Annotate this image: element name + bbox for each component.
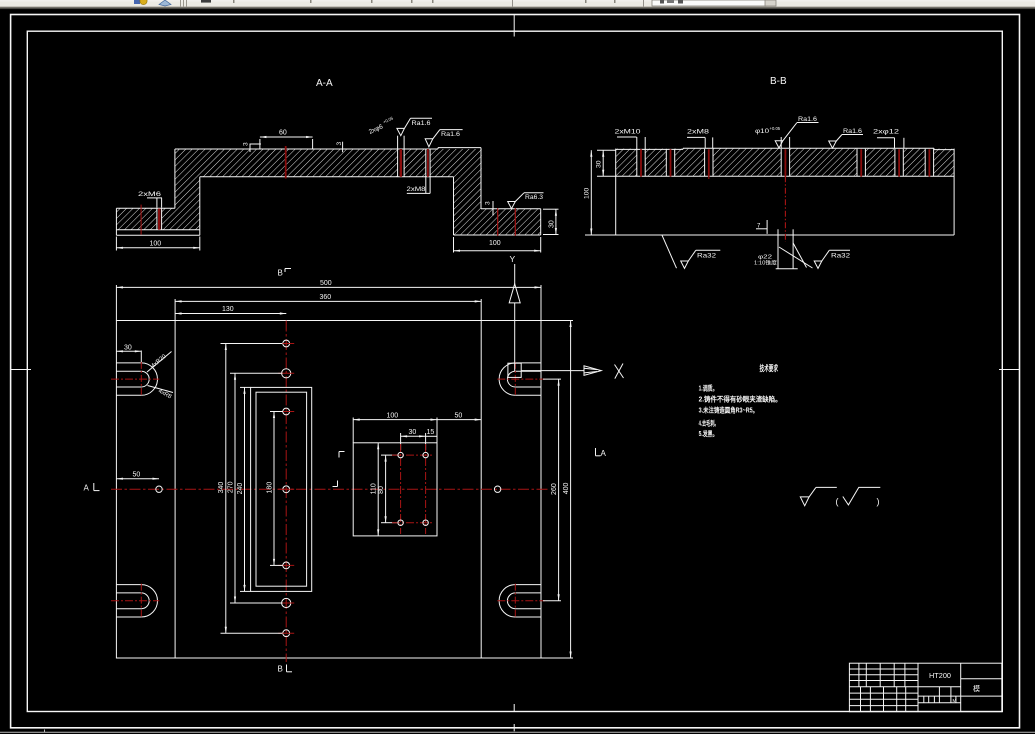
svg-text:2xφ12: 2xφ12 (873, 129, 900, 136)
svg-text:1:10锥度: 1:10锥度 (754, 259, 777, 266)
svg-text:30: 30 (124, 345, 132, 352)
svg-text:5.发黑。: 5.发黑。 (699, 429, 718, 438)
svg-text:60: 60 (279, 130, 287, 137)
svg-text:360: 360 (320, 294, 332, 301)
svg-text:100: 100 (150, 241, 162, 248)
svg-text:Ra1.6: Ra1.6 (843, 128, 863, 135)
svg-text:100: 100 (584, 187, 591, 199)
svg-text:A-A: A-A (316, 78, 333, 89)
svg-text:2xM8: 2xM8 (407, 186, 426, 193)
svg-text:100: 100 (489, 240, 501, 247)
svg-text:Ra32: Ra32 (831, 253, 851, 260)
svg-text:130: 130 (222, 306, 234, 313)
svg-text:240: 240 (237, 483, 244, 495)
svg-text:(: ( (836, 497, 839, 507)
svg-text:270: 270 (227, 481, 234, 493)
svg-text:50: 50 (133, 472, 141, 479)
svg-text:30: 30 (549, 220, 556, 228)
svg-text:3: 3 (336, 142, 343, 146)
svg-text:30: 30 (409, 429, 417, 436)
svg-text:Ra1.6: Ra1.6 (412, 120, 432, 127)
svg-text:3.未注铸造圆角R3~R5。: 3.未注铸造圆角R3~R5。 (699, 406, 759, 415)
svg-text:80: 80 (378, 486, 385, 494)
svg-text:260: 260 (551, 483, 558, 495)
svg-text:4.去毛刺。: 4.去毛刺。 (699, 418, 719, 427)
svg-text:3: 3 (243, 142, 250, 146)
svg-text:): ) (877, 497, 880, 507)
svg-text:A: A (84, 484, 90, 493)
svg-text:Ra32: Ra32 (697, 253, 717, 260)
svg-text:A: A (601, 449, 607, 458)
svg-text:Ra1.6: Ra1.6 (798, 116, 818, 123)
svg-text:M: M (953, 698, 957, 703)
svg-text:模: 模 (973, 684, 980, 693)
svg-text:50: 50 (455, 412, 463, 419)
svg-text:HT200: HT200 (929, 673, 951, 680)
svg-text:Y: Y (510, 254, 516, 264)
svg-text:2xM10: 2xM10 (615, 129, 642, 136)
svg-text:Ra1.6: Ra1.6 (441, 131, 461, 138)
svg-text:2xM8: 2xM8 (687, 129, 710, 136)
svg-text:400: 400 (563, 482, 570, 494)
svg-text:Ra6.3: Ra6.3 (525, 194, 544, 201)
svg-text:2xM6: 2xM6 (138, 191, 162, 198)
svg-text:340: 340 (218, 482, 225, 494)
svg-text:100: 100 (387, 412, 399, 419)
svg-text:1.调质。: 1.调质。 (699, 383, 718, 392)
svg-text:180: 180 (266, 482, 273, 494)
svg-text:B-B: B-B (770, 76, 787, 87)
svg-text:+0.05: +0.05 (770, 126, 781, 131)
svg-text:30: 30 (596, 160, 603, 168)
svg-text:φ10: φ10 (755, 128, 769, 135)
svg-text:3: 3 (485, 201, 492, 205)
svg-text:15: 15 (427, 429, 435, 436)
svg-text:500: 500 (320, 280, 332, 287)
svg-text:110: 110 (371, 483, 378, 494)
svg-text:B: B (278, 665, 283, 674)
svg-text:技术要求: 技术要求 (760, 363, 779, 373)
svg-text:2.铸件不得有砂眼夹渣缺陷。: 2.铸件不得有砂眼夹渣缺陷。 (699, 395, 782, 404)
svg-text:B: B (278, 269, 283, 278)
